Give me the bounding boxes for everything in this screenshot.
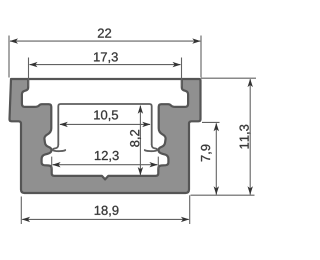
arrowhead dim 18,9 right: [181, 217, 189, 222]
dimension 22 (top overall width): [9, 36, 201, 78]
dimension 12,3 (channel floor width): [52, 157, 159, 170]
label "22": [98, 29, 111, 38]
label "11,3" (rotated): [240, 125, 251, 149]
arrowhead dim 12,3 right: [149, 162, 157, 167]
arrowhead dim 7,9 down: [214, 186, 219, 194]
arrowhead dim 7,9 up: [214, 123, 219, 131]
dimension 10,5 (inner width between cover legs): [60, 123, 150, 125]
arrowhead dim 12,3 left: [52, 162, 60, 167]
label "18,9": [95, 206, 119, 217]
cover left foot hook: [53, 144, 65, 151]
label "12,3": [95, 151, 119, 162]
arrowhead dim 22 right: [192, 38, 200, 43]
arrowhead dim 22 left: [10, 38, 18, 43]
arrowhead dim 11,3 down: [248, 186, 253, 194]
label "8,2" (rotated): [130, 130, 141, 147]
cover / klosz outline (white piece sitting in the channel): [58, 104, 151, 144]
label "10,5": [94, 110, 118, 121]
dimension 17,3 (opening width): [29, 58, 182, 87]
dimension 11,3 (total height, rotated): [191, 78, 257, 195]
arrowhead dim 8,2 up: [138, 105, 143, 113]
arrowhead dim 18,9 left: [22, 217, 30, 222]
dimension 7,9 (lower body height, rotated): [202, 122, 220, 194]
label "17,3": [94, 52, 118, 63]
arrowhead dim 8,2 down: [138, 167, 143, 175]
arrowhead dim 17,3 left: [29, 62, 37, 67]
dimension 18,9 (body width, bottom): [21, 195, 189, 224]
label "7,9" (rotated): [201, 145, 212, 162]
arrowhead dim 17,3 right: [173, 62, 181, 67]
dimension 8,2 (channel depth, rotated): [139, 106, 141, 175]
arrowhead dim 10,5 left: [59, 122, 67, 127]
cover right foot hook: [145, 144, 157, 151]
aluminium profile cross-section (grey body with inner channel cut-out): [10, 79, 201, 193]
arrowhead dim 11,3 up: [248, 79, 253, 87]
arrowhead dim 10,5 right: [142, 122, 150, 127]
